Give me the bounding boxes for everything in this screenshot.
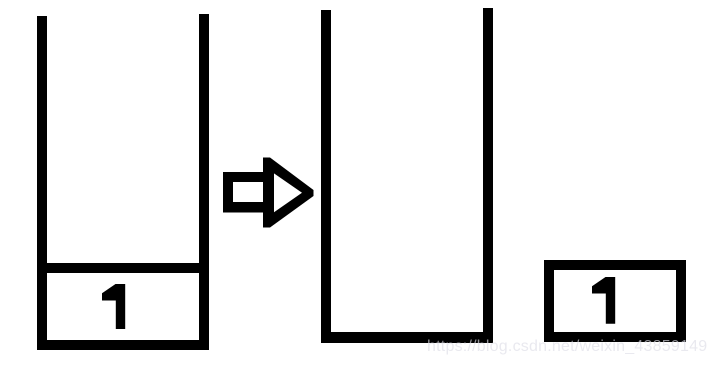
stack 1 element value 1 xyxy=(102,284,126,330)
popped element box xyxy=(544,260,686,342)
stack 1 bottom wall xyxy=(37,340,209,350)
watermark https://blog.csdn.net/weixin_43859149 xyxy=(427,337,707,356)
stack 1 left wall xyxy=(37,16,47,350)
stack 2 bottom wall xyxy=(321,332,493,343)
stack 1 cell divider line xyxy=(37,263,209,273)
pop arrow xyxy=(215,150,320,235)
popped element value 1 xyxy=(592,277,616,325)
stack 2 right wall xyxy=(483,8,493,343)
stack 2 left wall xyxy=(321,10,331,343)
stack 1 right wall xyxy=(199,14,209,350)
